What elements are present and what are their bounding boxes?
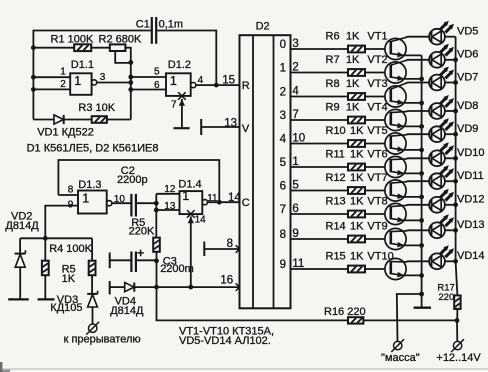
wire R7 to base VT2 (365, 72, 385, 74)
svg-text:R7: R7 (326, 54, 340, 66)
wire R16 to +12V node (363, 319, 457, 321)
wire VD10 to right rail (445, 157, 456, 159)
svg-text:1K: 1K (350, 196, 364, 208)
stub terminal VD4 left (109, 281, 111, 294)
wire VD1 to R3 (64, 119, 92, 121)
resistor R12 1K (348, 187, 365, 194)
wire D1.4 input vertical (155, 194, 157, 238)
resistor R7 1K (348, 69, 365, 76)
resistor R4 100K (89, 261, 96, 276)
svg-text:1K: 1K (350, 221, 364, 233)
svg-text:13: 13 (164, 201, 176, 212)
svg-text:1K: 1K (346, 31, 360, 43)
node junction pin13 / R5 (154, 208, 159, 213)
wire D2 output 0 to R6 (291, 48, 349, 50)
svg-text:VD9: VD9 (457, 123, 478, 135)
svg-text:VD14: VD14 (457, 250, 485, 262)
wire feedback rail vertical (130, 62, 132, 119)
stub terminal pin 13 (200, 119, 202, 135)
svg-text:1: 1 (182, 189, 189, 203)
svg-text:2: 2 (280, 87, 286, 99)
ground bar pin 7 (174, 127, 190, 129)
svg-text:V: V (242, 123, 250, 135)
node junction R5 branch (43, 236, 48, 241)
svg-text:13: 13 (224, 118, 237, 130)
wire pin 14 of D1.4 down (190, 216, 192, 287)
LED VD6 (429, 52, 445, 68)
LED VD8 emission arrows (440, 98, 446, 104)
wire VD2 to ground (19, 267, 21, 299)
svg-text:D2: D2 (256, 20, 270, 32)
node junction right rail VD7 (453, 80, 458, 85)
wire VD6 to right rail (445, 59, 456, 61)
diode VD1 (54, 115, 64, 124)
stub terminal C3 left (109, 253, 111, 269)
wire VD9 to right rail (445, 133, 456, 135)
svg-text:D1.1: D1.1 (71, 59, 94, 71)
resistor R5 1K (42, 261, 49, 276)
svg-text:R10: R10 (326, 125, 346, 137)
wire pin 7 down (181, 99, 183, 128)
resistor R14 1K (348, 236, 365, 243)
svg-text:VT6: VT6 (367, 149, 387, 161)
wire R5 branch upper (44, 238, 46, 260)
wire C3 node down (156, 261, 158, 287)
pin 16 X mark (236, 283, 244, 291)
resistor R11 1K (348, 164, 365, 171)
svg-text:2200m: 2200m (160, 263, 194, 275)
svg-text:0,1m: 0,1m (159, 19, 183, 31)
wire C2 to D1.4 inputs (137, 202, 156, 204)
wire pin 2 of D1.1 (33, 88, 70, 90)
svg-text:R: R (242, 80, 250, 92)
wire VD5 to right rail (445, 36, 456, 38)
node junction C3 (154, 258, 159, 263)
wire R13 to base VT8 (365, 213, 385, 215)
wire collector VT8 to VD12 (406, 204, 429, 207)
svg-text:D1.2: D1.2 (168, 59, 191, 71)
svg-text:0: 0 (280, 39, 286, 51)
svg-text:1: 1 (82, 192, 89, 206)
LED VD11 emission arrows (440, 168, 446, 174)
svg-text:1K: 1K (350, 251, 364, 263)
wire collector VT1 to VD5 (406, 36, 429, 39)
svg-text:4: 4 (198, 75, 204, 86)
svg-text:9: 9 (68, 199, 74, 210)
wire collector VT6 to VD10 (406, 157, 429, 160)
svg-text:к прерывателю: к прерывателю (64, 334, 141, 346)
node junction emitter rail row 7 (419, 195, 424, 200)
wire emitter VT10 to common rail (403, 274, 421, 276)
op-amp gate D1.3 (78, 191, 107, 214)
wire emitter VT4 to common rail (403, 125, 421, 127)
wire pin 1 of D1.1 (33, 76, 70, 78)
svg-text:8: 8 (68, 185, 74, 196)
LED VD14 (429, 253, 445, 269)
svg-text:2200p: 2200p (117, 174, 148, 186)
svg-text:1: 1 (170, 74, 177, 88)
svg-text:R16 220: R16 220 (324, 306, 366, 318)
resistor R10 1K (348, 140, 365, 147)
wire pin 13 of D2 (201, 126, 239, 128)
op-amp gate D1.2 (166, 73, 191, 96)
svg-text:VD11: VD11 (457, 170, 484, 182)
svg-text:R11: R11 (326, 149, 345, 161)
svg-text:+12..14V: +12..14V (436, 352, 481, 364)
svg-text:VD10: VD10 (457, 147, 485, 159)
svg-text:12: 12 (164, 184, 176, 195)
svg-text:10: 10 (114, 194, 126, 205)
node junction rail / pin5 (128, 75, 133, 80)
wire emitter VT5 to common rail (403, 149, 421, 151)
pin bubble D1.2 output (191, 83, 196, 88)
op-amp gate D1.4 (180, 191, 203, 214)
node junction right rail VD10 (453, 156, 458, 161)
svg-text:VD5: VD5 (457, 26, 478, 38)
node junction right rail VD12 (453, 202, 458, 207)
wire R4 branch upper (91, 238, 93, 260)
svg-text:R8: R8 (326, 78, 340, 90)
svg-text:1K: 1K (350, 125, 364, 137)
wire C3 right (137, 259, 157, 261)
LED VD7 (429, 75, 445, 91)
svg-text:1K: 1K (346, 102, 360, 114)
node junction C1 feedback (214, 83, 219, 88)
svg-text:VD12: VD12 (457, 194, 485, 206)
svg-text:D1.3: D1.3 (78, 179, 101, 191)
LED VD11 (429, 173, 445, 189)
wire R12 to base VT7 (365, 190, 385, 192)
wire collector VT4 to VD8 (406, 110, 429, 113)
pin 7 arrow (179, 99, 185, 106)
transistor VT7 (385, 180, 406, 201)
node junction emitter rail row 6 (419, 171, 424, 176)
svg-text:1: 1 (74, 74, 81, 88)
wire pin 9 of D1.3 (45, 206, 78, 239)
svg-text:1: 1 (280, 63, 286, 75)
diode VD4 (125, 283, 134, 292)
wire R9 to base VT4 (365, 119, 385, 121)
wire C3 node to bottom rail (157, 287, 349, 320)
LED VD9 emission arrows (440, 121, 446, 127)
svg-text:R12: R12 (326, 172, 346, 184)
transistor VT2 (385, 62, 406, 83)
svg-text:R6: R6 (326, 31, 340, 43)
node junction right rail VD6 (453, 57, 458, 62)
resistor R13 1K (348, 211, 365, 218)
svg-text:1K: 1K (346, 78, 360, 90)
wire collector VT2 to VD6 (406, 59, 429, 62)
wire VD8 to right rail (445, 110, 456, 112)
label C3 plus (137, 250, 143, 257)
LED VD7 emission arrows (440, 70, 446, 76)
svg-text:VD6: VD6 (457, 49, 478, 61)
counter U D2 box (240, 35, 291, 308)
node junction right rail VD8 (453, 109, 458, 114)
svg-text:5: 5 (154, 67, 160, 78)
svg-text:2: 2 (60, 79, 66, 90)
wire emitter common rail (421, 55, 423, 307)
wire R3 to feedback rail (107, 119, 131, 121)
wire D2 output 6 to R12 (291, 190, 349, 192)
svg-text:VD8: VD8 (457, 100, 478, 112)
wire emitter VT1 to common rail (403, 54, 421, 56)
LED VD5 emission arrows (440, 24, 446, 30)
wire emitter VT8 to common rail (403, 219, 421, 221)
resistor R1 100K (74, 44, 91, 51)
node junction VD4 row (154, 285, 159, 290)
wire VD4 left (110, 286, 125, 288)
svg-text:5: 5 (280, 157, 286, 169)
node junction emitter rail row 2 (419, 77, 424, 82)
wire pin 10 to C2 (112, 202, 131, 204)
svg-text:1: 1 (60, 67, 66, 78)
svg-text:R13: R13 (326, 196, 346, 208)
svg-text:R14: R14 (326, 221, 346, 233)
svg-text:VD7: VD7 (457, 71, 478, 83)
wire R2 body tap loop (115, 51, 131, 63)
wire +12V node down (456, 320, 458, 341)
svg-text:"масса": "масса" (381, 352, 420, 364)
svg-text:9: 9 (280, 259, 286, 271)
transistor VT3 (385, 86, 406, 107)
node junction emitter rail row 10 (419, 273, 424, 278)
svg-text:220: 220 (438, 292, 454, 303)
wire emitter VT9 to common rail (403, 244, 421, 246)
svg-text:14: 14 (195, 214, 207, 225)
node junction rail / pin3 (128, 80, 133, 85)
LED VD10 emission arrows (440, 145, 446, 151)
svg-text:R9: R9 (326, 102, 340, 114)
capacitor C3 2200m (130, 252, 132, 273)
svg-text:R1 100K: R1 100K (51, 34, 94, 46)
pin 8 X mark (236, 245, 244, 253)
svg-text:6: 6 (280, 181, 286, 193)
node junction left rail / pin1 (31, 75, 36, 80)
svg-text:VT8: VT8 (367, 196, 387, 208)
stub terminal pin 8 (203, 242, 205, 257)
wire left vertical rail (32, 30, 34, 120)
svg-text:1K: 1K (62, 273, 76, 285)
wire emitter VT6 to common rail (403, 172, 421, 174)
svg-text:VD13: VD13 (457, 219, 485, 231)
LED VD8 (429, 103, 445, 119)
svg-text:1K: 1K (350, 172, 364, 184)
LED VD12 (429, 197, 445, 213)
wire VD4 to D2 pin 16 (134, 286, 239, 288)
LED VD10 (429, 150, 445, 166)
svg-text:7: 7 (171, 100, 177, 111)
wire between R1 and R2 (91, 47, 110, 49)
wire pin 8 of D1.3 (58, 194, 78, 196)
resistor R8 1K (348, 93, 365, 100)
wire top rail from left rail to C1 (33, 30, 151, 32)
node junction left rail / pin2 (31, 87, 36, 92)
wire R5 220K to C3 node (156, 252, 158, 261)
capacitor C2 (130, 194, 132, 217)
svg-text:11: 11 (207, 193, 218, 204)
node junction right rail VD11 (453, 179, 458, 184)
svg-text:1K: 1K (346, 54, 360, 66)
svg-text:1K: 1K (350, 149, 364, 161)
LED VD6 emission arrows (440, 47, 446, 53)
svg-text:VT2: VT2 (367, 54, 387, 66)
wire R6 to base VT1 (365, 48, 385, 50)
svg-text:4: 4 (280, 134, 287, 146)
node junction emitter rail row 9 (419, 243, 424, 248)
svg-text:Д814Д: Д814Д (5, 220, 39, 232)
wire pin 12 of D1.4 (156, 193, 179, 195)
svg-text:КД105: КД105 (50, 302, 82, 314)
wire emitter VT3 to common rail (403, 102, 421, 104)
wire D2 output 9 to R15 (291, 268, 349, 270)
node junction right rail VD14 (453, 259, 458, 264)
svg-text:VD5-VD14 АЛ102.: VD5-VD14 АЛ102. (179, 335, 271, 347)
wire R2 right to feedback rail (125, 48, 130, 63)
resistor R3 10K (92, 116, 107, 123)
transistor VT1 (385, 38, 406, 59)
svg-text:3: 3 (100, 72, 106, 83)
LED VD12 emission arrows (440, 192, 446, 198)
wire collector VT7 to VD11 (406, 180, 429, 183)
svg-text:C: C (242, 197, 250, 209)
svg-text:VT9: VT9 (367, 221, 387, 233)
resistor R9 1K (348, 117, 365, 124)
pin bubble D1.1 output (92, 80, 97, 85)
wire VD7 to right rail (445, 82, 456, 84)
wire R8 to base VT3 (365, 96, 385, 98)
terminal к прерывателю (89, 324, 97, 332)
LED VD9 (429, 126, 445, 142)
wire масса tap (397, 294, 422, 341)
svg-text:D1 К561ЛЕ5, D2 К561ИЕ8: D1 К561ЛЕ5, D2 К561ИЕ8 (27, 143, 159, 155)
svg-text:8: 8 (227, 238, 233, 250)
wire D2 output 7 to R13 (291, 213, 349, 215)
resistor R16 220 (348, 317, 363, 323)
svg-text:VT7: VT7 (367, 172, 387, 184)
node junction масса tap (419, 292, 424, 297)
svg-text:VT3: VT3 (367, 78, 387, 90)
wire VD2 branch down (19, 238, 21, 253)
pin bubble D1.4 output (202, 200, 207, 205)
node junction emitter rail row 5 (419, 148, 424, 153)
node junction left rail / R1 (31, 45, 36, 50)
wire D2 output 3 to R9 (291, 119, 349, 121)
resistor R17 220 (454, 295, 460, 309)
wire R4 to VD3 (91, 275, 93, 294)
wire R11 to base VT6 (365, 166, 385, 168)
wire VD13 to right rail (445, 229, 456, 231)
svg-text:R15: R15 (326, 251, 346, 263)
transistor VT5 (385, 133, 406, 154)
wire R1 row left segment (33, 47, 74, 49)
wire feedback top loop D1.3-D1.4 (58, 160, 219, 202)
svg-text:C1: C1 (136, 18, 150, 30)
transistor VT4 (385, 109, 406, 130)
wire C3 left (110, 259, 131, 261)
wire pin 11 of D1.4 to D2 pin 14 (208, 201, 240, 203)
transistor VT10 (385, 258, 406, 279)
svg-text:Д814Д: Д814Д (110, 305, 144, 317)
wire collector VT10 to VD14 (406, 260, 429, 263)
node junction pin 11 / loop (217, 200, 222, 205)
LED VD5 (429, 29, 445, 45)
svg-text:R4 100K: R4 100K (49, 243, 92, 255)
node junction rail / pin6 (128, 87, 133, 92)
wire pin 4 of D1.2 to D2 pin 15 (196, 84, 240, 86)
wire collector VT5 to VD9 (406, 133, 429, 136)
LED VD13 emission arrows (440, 217, 446, 223)
wire D2 output 8 to R14 (291, 238, 349, 240)
node junction emitter rail row 3 (419, 101, 424, 106)
svg-text:8: 8 (280, 229, 286, 241)
zener diode VD2 (15, 253, 26, 255)
wire right rail VD5 to R17 (456, 37, 458, 296)
LED VD14 emission arrows (440, 248, 446, 254)
resistor R2 680K (110, 44, 126, 51)
wire R5 to ground (44, 275, 46, 299)
pin bubble D1.3 output (107, 201, 112, 206)
wire collector VT9 to VD13 (406, 229, 429, 232)
wire VD2 node horizontal (20, 237, 92, 239)
wire R17 to +12V node (456, 309, 458, 321)
wire emitter VT7 to common rail (403, 196, 421, 198)
ground bar R5 (38, 298, 55, 300)
svg-text:VD1 КД522: VD1 КД522 (37, 126, 94, 138)
node junction +12V rail (455, 318, 460, 323)
svg-text:220K: 220K (129, 226, 155, 238)
svg-text:VT5: VT5 (367, 125, 387, 137)
svg-text:VT4: VT4 (367, 102, 387, 114)
LED VD13 (429, 222, 445, 238)
pin 14 arrow (188, 217, 194, 224)
wire D2 output 4 to R10 (291, 143, 349, 145)
wire C1 right plate to D1.2 output node (157, 31, 216, 86)
resistor R5 220K (153, 238, 160, 252)
node junction right rail VD13 (453, 228, 458, 233)
svg-text:VT1: VT1 (367, 31, 387, 43)
resistor R15 1K (348, 266, 365, 273)
wire emitter VT2 to common rail (403, 78, 421, 80)
wire R14 to base VT9 (365, 238, 385, 240)
wire D2 output 5 to R11 (291, 166, 349, 168)
pin 7 X mark on D1.2 (178, 92, 186, 100)
pin 14 X mark on D1.4 (187, 210, 195, 218)
wire collector VT3 to VD7 (406, 82, 429, 85)
terminal масса (394, 341, 402, 349)
resistor R6 1K (348, 46, 365, 53)
ground bar VD2 (8, 298, 29, 300)
wire pin 5 of D1.2 (131, 76, 166, 78)
svg-text:16: 16 (220, 275, 233, 287)
terminal +12..14V (453, 341, 461, 349)
wire R15 to base VT10 (365, 268, 385, 270)
capacitor C1 (151, 17, 153, 44)
svg-text:15: 15 (222, 74, 235, 86)
svg-text:R3 10K: R3 10K (78, 102, 115, 114)
transistor VT8 (385, 203, 406, 224)
svg-text:3: 3 (280, 110, 286, 122)
svg-text:R2 680K: R2 680K (99, 34, 142, 46)
ground bar emitter rail (414, 307, 431, 309)
wire VD3 to terminal (92, 307, 94, 324)
node junction right rail VD9 (453, 132, 458, 137)
diode VD3 (87, 293, 97, 295)
wire VD14 to right rail (445, 260, 456, 262)
wire pin 8 of D2 (204, 248, 239, 250)
wire VD1 row left (33, 119, 54, 121)
wire pin 3 of D1.1 to rail (97, 82, 131, 84)
